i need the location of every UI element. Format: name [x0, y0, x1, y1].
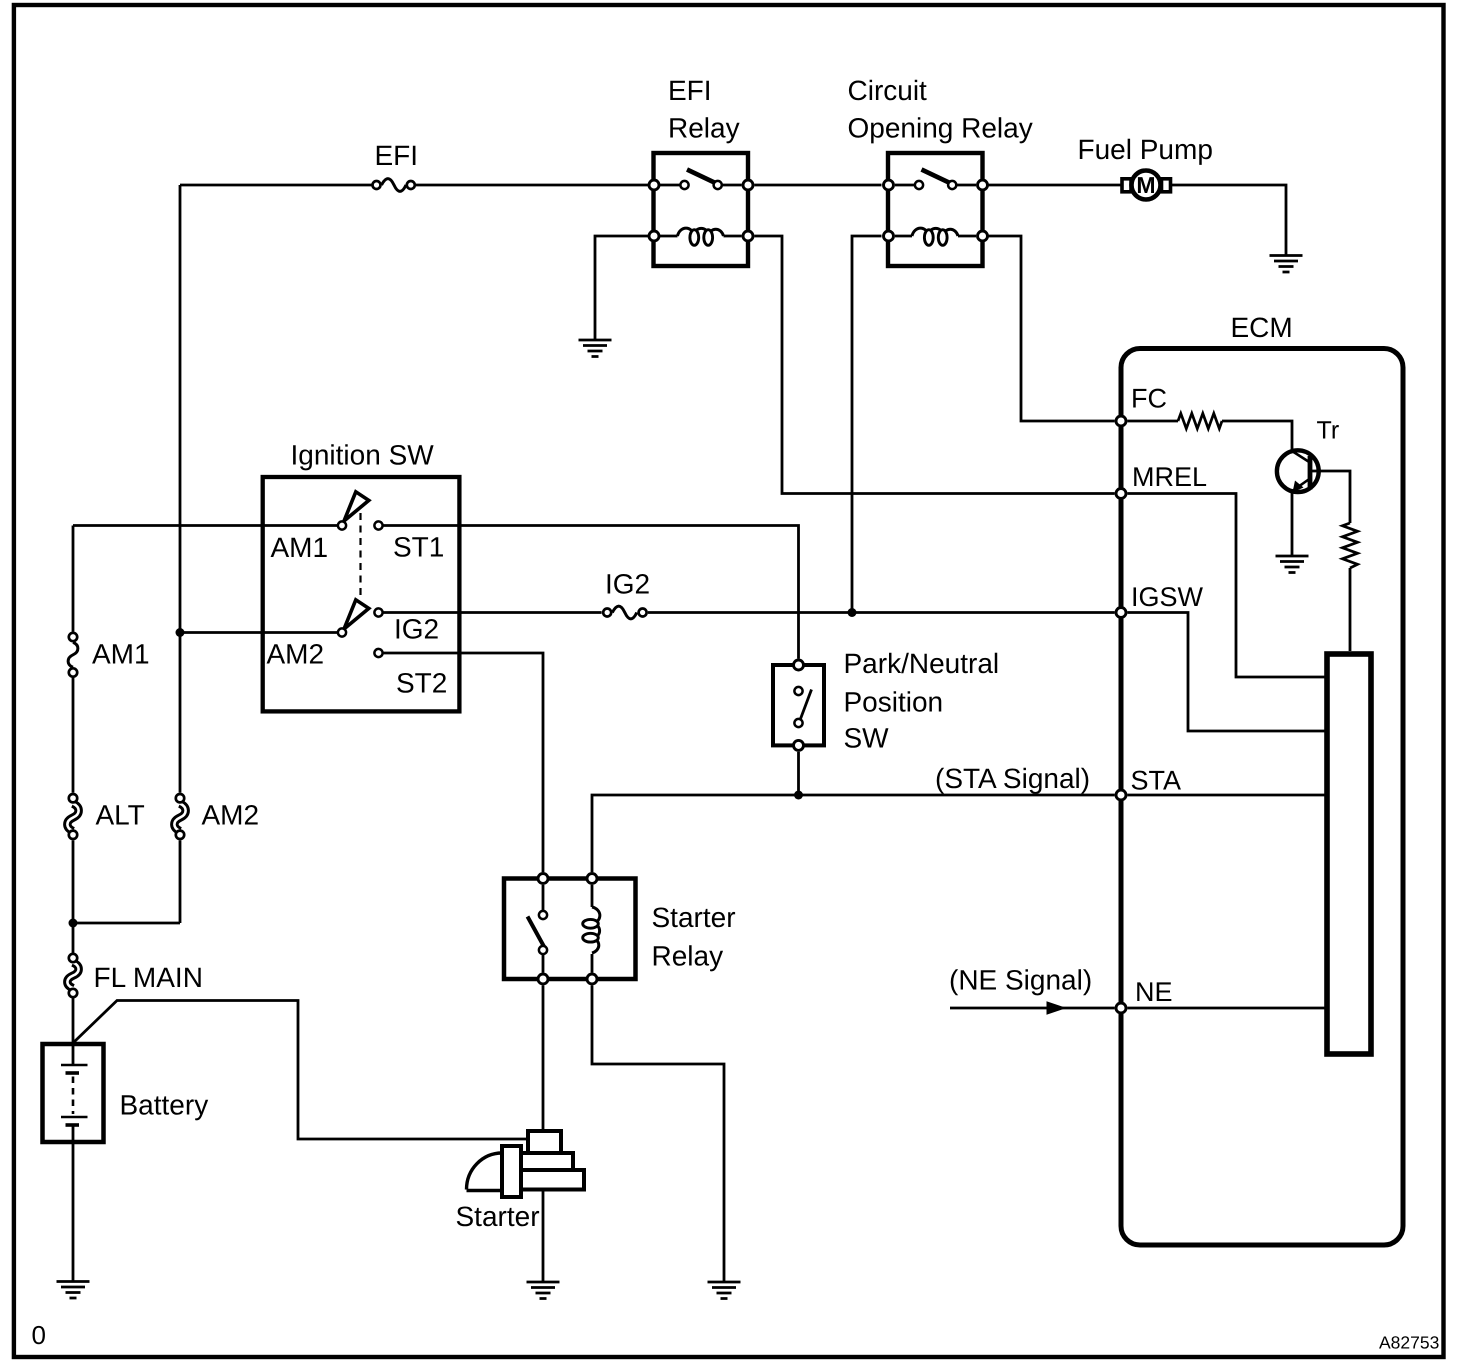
wire: vertical feeder x=180 lower segment	[179, 840, 182, 923]
Circuit Opening Relay	[884, 153, 988, 266]
battery	[43, 1044, 104, 1142]
wire: vertical feeder x=180 upper segment	[179, 185, 182, 793]
ignition switch ST2 contact	[374, 649, 382, 657]
fusible link ALT	[67, 794, 78, 839]
starter	[467, 1131, 585, 1197]
wire: STA line from starter relay coil to ECM	[592, 795, 1115, 872]
wire: IGSW into logic block	[1128, 613, 1328, 732]
EFI relay terminals	[649, 180, 659, 190]
ignition switch lever AM1	[344, 492, 369, 521]
Ignition SW box	[263, 477, 460, 711]
COR switch lever	[922, 170, 952, 184]
wire: Park/Neutral SW to STA line	[797, 752, 800, 795]
ECM terminal NE	[1116, 1003, 1126, 1013]
wire: COR coil to ECM FC	[989, 236, 1115, 421]
junction dot at feeder/AM2 branch	[176, 628, 185, 637]
svg-text:AM2: AM2	[202, 800, 260, 831]
svg-text:Relay: Relay	[668, 113, 740, 144]
wire: battery negative to ground	[72, 1125, 75, 1282]
ignition switch lever AM2	[344, 600, 369, 629]
starter relay switch lever	[528, 917, 545, 948]
junction dot on STA line at P/N SW	[794, 791, 803, 800]
wire: left column above AM1 fuse	[72, 526, 75, 632]
ECM terminal MREL	[1116, 489, 1126, 499]
wire: pull resistor to logic block	[1349, 568, 1352, 651]
fuse AM1	[68, 633, 78, 677]
svg-text:A82753: A82753	[1379, 1333, 1439, 1353]
junction dot at left column y=923	[69, 919, 78, 928]
ground: EFI relay coil	[579, 340, 612, 357]
ignition switch IG2 contact	[374, 608, 382, 616]
wire: left column AM1 fuse to ALT link	[72, 678, 75, 793]
wire: bottom jumper 73-180 at y=923	[73, 922, 180, 925]
starter solenoid top block	[528, 1131, 561, 1153]
svg-text:ST1: ST1	[393, 532, 444, 563]
ECM terminal IGSW	[1116, 608, 1126, 618]
svg-text:IG2: IG2	[394, 614, 439, 645]
EFI relay	[649, 153, 753, 266]
wire: EFI relay coil to ECM MREL	[755, 236, 1115, 494]
fusible link FL MAIN	[67, 954, 78, 997]
svg-text:Position: Position	[844, 687, 944, 718]
svg-text:Starter: Starter	[652, 902, 736, 933]
wire: COR switch to fuel pump	[989, 184, 1123, 187]
EFI relay switch contacts	[680, 181, 688, 189]
svg-text:SW: SW	[844, 723, 890, 754]
ignition switch ST1 contact	[374, 521, 382, 529]
wire: MREL into logic block	[1128, 494, 1328, 678]
ground: starter relay coil	[708, 1282, 741, 1299]
starter solenoid lower bar	[517, 1170, 584, 1190]
svg-text:FL MAIN: FL MAIN	[94, 962, 203, 993]
ignition switch link (dashed)	[359, 513, 361, 597]
ground: starter	[527, 1282, 560, 1299]
svg-text:(STA Signal): (STA Signal)	[935, 763, 1090, 794]
fuse EFI	[373, 179, 415, 192]
ground: battery	[57, 1282, 90, 1299]
svg-text:AM1: AM1	[271, 532, 329, 563]
ECM box	[1121, 349, 1403, 1246]
ground: transistor emitter	[1276, 556, 1309, 573]
COR coil	[912, 228, 958, 236]
starter relay terminals	[538, 874, 548, 884]
resistor at transistor base (vertical)	[1342, 523, 1357, 568]
wire: resistor to transistor collector	[1222, 421, 1292, 451]
svg-text:Fuel Pump: Fuel Pump	[1078, 134, 1213, 165]
fusible link AM2	[174, 794, 185, 839]
ignition switch AM1 contact	[338, 521, 346, 529]
svg-text:Opening Relay: Opening Relay	[848, 113, 1033, 144]
EFI relay coil	[661, 235, 742, 238]
svg-text:(NE Signal): (NE Signal)	[949, 965, 1092, 996]
svg-text:IGSW: IGSW	[1131, 582, 1204, 612]
starter relay coil	[592, 907, 600, 953]
ECM terminal FC	[1116, 416, 1126, 426]
starter bell housing	[467, 1153, 506, 1191]
resistor FC (horizontal)	[1178, 413, 1222, 428]
wire: AM1 branch horizontal y=526	[73, 524, 338, 527]
svg-text:Battery: Battery	[120, 1090, 209, 1121]
svg-text:Relay: Relay	[652, 941, 724, 972]
wire: transistor base to pull resistor	[1308, 471, 1350, 523]
wire: AM2 branch horizontal y=632.5	[180, 631, 338, 634]
wire: NE into logic block	[1128, 1007, 1328, 1010]
svg-text:0: 0	[32, 1320, 46, 1350]
wire: EFI fuse to EFI relay	[416, 184, 661, 187]
wire: COR coil feed from IG2 line	[852, 236, 882, 613]
Starter Relay	[504, 874, 636, 985]
starter solenoid middle bar	[517, 1153, 573, 1170]
svg-text:Ignition SW: Ignition SW	[291, 440, 435, 471]
junction dot on IG2 line at COR coil feed	[848, 608, 857, 617]
wire: STA into logic block	[1128, 794, 1328, 797]
wire: left column ALT link to junction	[72, 840, 75, 953]
svg-text:Starter: Starter	[456, 1201, 540, 1232]
wire: battery positive to starter solenoid	[74, 1001, 528, 1140]
svg-text:AM2: AM2	[267, 639, 325, 670]
svg-text:FC: FC	[1131, 384, 1167, 414]
logic block	[1327, 654, 1371, 1054]
starter relay switch contacts	[539, 911, 547, 919]
wire: starter relay coil to ground	[592, 986, 724, 1283]
svg-text:NE: NE	[1135, 977, 1173, 1007]
EFI relay switch lever	[687, 170, 717, 184]
svg-text:IG2: IG2	[605, 569, 650, 600]
svg-text:Tr: Tr	[1317, 417, 1340, 445]
wire: battery feed to EFI fuse (y=185)	[180, 184, 372, 187]
svg-text:STA: STA	[1131, 766, 1182, 796]
svg-text:ECM: ECM	[1231, 312, 1293, 343]
svg-text:EFI: EFI	[668, 75, 712, 106]
svg-text:EFI: EFI	[375, 140, 419, 171]
svg-text:Circuit: Circuit	[848, 75, 928, 106]
transistor Tr	[1277, 450, 1319, 492]
svg-text:M: M	[1136, 172, 1155, 198]
wire: left column FL MAIN to battery	[72, 997, 75, 1064]
wire: fuel pump to ground	[1170, 185, 1286, 256]
wire: ST1 to Park/Neutral SW	[384, 526, 799, 659]
svg-text:AM1: AM1	[92, 639, 150, 670]
svg-text:MREL: MREL	[1132, 462, 1207, 492]
starter brush bar	[502, 1146, 521, 1197]
wire: starter relay switch to starter solenoid	[542, 986, 545, 1132]
wire: ST2 to starter relay	[384, 653, 544, 872]
ground: fuel pump	[1270, 256, 1303, 273]
svg-text:Park/Neutral: Park/Neutral	[844, 648, 1000, 679]
COR terminals	[884, 180, 894, 190]
wire: NE signal line with arrow	[950, 1007, 1115, 1010]
wire: IG2 contact to IG2 fuse	[384, 611, 602, 614]
arrowhead on NE signal	[1047, 1001, 1067, 1015]
Park/Neutral Position SW	[773, 660, 824, 750]
wire: transistor emitter to ground	[1291, 492, 1294, 557]
COR switch contacts	[915, 181, 923, 189]
fuel pump motor	[1122, 171, 1171, 200]
wire: IG2 fuse to ECM IGSW	[648, 611, 1115, 614]
ECM terminal STA	[1116, 790, 1126, 800]
wire: EFI relay coil left to ground	[595, 236, 661, 340]
svg-text:ALT: ALT	[96, 800, 145, 831]
ignition switch AM2 contact	[338, 628, 346, 636]
wire: starter to ground	[542, 1190, 545, 1282]
wire: FC to resistor	[1128, 420, 1179, 423]
fuse IG2	[603, 606, 646, 619]
svg-text:ST2: ST2	[396, 668, 447, 699]
wire: EFI relay switch to Circuit Opening Relay switch	[755, 184, 882, 187]
